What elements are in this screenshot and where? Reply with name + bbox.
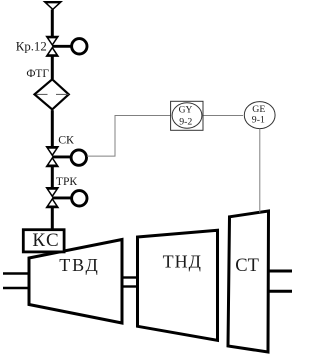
actuator circle of СК (71, 150, 86, 165)
svg-text:ФТГ: ФТГ (26, 67, 49, 80)
filter inner line (37, 93, 48, 95)
svg-text:ТНД: ТНД (163, 252, 202, 272)
svg-text:9-1: 9-1 (252, 115, 265, 126)
instrument GE 9-1 circle (244, 102, 275, 129)
turbine СТ (228, 211, 269, 352)
instrument GY 9-2 square (171, 101, 203, 130)
turbine ТВД (29, 240, 122, 324)
turbine ТНД (138, 230, 218, 340)
actuator circle of ТРК (72, 191, 87, 206)
shaft left lines (3, 274, 29, 289)
wire: signal CK circle to riser (87, 116, 171, 157)
wire: signal GE down to CT (259, 129, 261, 213)
wire: valve CK to valve TRK (51, 166, 54, 189)
svg-text:ТРК: ТРК (56, 175, 78, 188)
wire: valve Kr.12 to filter (51, 55, 54, 79)
wire: valve TRK to KC box (51, 207, 54, 230)
coupling ТВД-ТНД (122, 278, 138, 287)
wire: filter to valve CK (51, 110, 54, 148)
wire: valve TRK actuator stub (52, 196, 71, 199)
svg-text:СК: СК (58, 133, 74, 147)
svg-text:ТВД: ТВД (59, 255, 100, 275)
svg-text:GE: GE (252, 104, 265, 115)
svg-text:КС: КС (32, 230, 60, 251)
shaft right lines (269, 271, 293, 291)
instrument GY 9-2 circle (172, 103, 202, 128)
combustion chamber КС box (23, 230, 64, 252)
svg-text:GY: GY (179, 106, 193, 116)
svg-text:9-2: 9-2 (179, 116, 192, 127)
actuator circle of Кр.12 (72, 39, 87, 54)
wire: inlet to valve Kr.12 (51, 10, 54, 38)
wire: signal GY to GE (203, 115, 243, 117)
valve СК (45, 146, 59, 167)
svg-text:Кр.12: Кр.12 (16, 39, 47, 53)
valve ТРК (45, 187, 59, 208)
inlet funnel triangle (43, 1, 63, 10)
valve Кр.12 (45, 36, 59, 57)
wire: valve CK actuator stub (52, 155, 71, 158)
svg-text:СТ: СТ (235, 256, 259, 276)
filter ФТГ diamond (33, 78, 71, 111)
wire: valve Kr.12 actuator stub (52, 45, 72, 48)
